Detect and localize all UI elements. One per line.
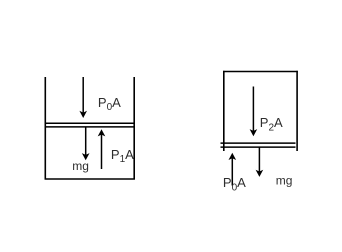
- arrow mg down (left figure): [85, 127, 87, 155]
- right piston bottom line: [221, 146, 296, 148]
- svg-text:mg: mg: [276, 173, 293, 187]
- right cylinder left wall: [223, 71, 225, 151]
- right cylinder right wall: [296, 71, 298, 151]
- svg-text:P0A: P0A: [223, 175, 246, 193]
- left cylinder left wall: [44, 77, 46, 180]
- svg-text:mg: mg: [72, 159, 89, 173]
- right piston top line: [221, 142, 296, 144]
- arrow P0A down (left figure): [82, 77, 84, 113]
- arrow P0A up (right figure): [231, 158, 233, 186]
- left cylinder right wall: [133, 77, 135, 180]
- svg-text:P1A: P1A: [111, 147, 134, 165]
- arrow mg down (right figure): [258, 148, 260, 172]
- arrow P1A up (left figure): [101, 134, 103, 169]
- left cylinder bottom: [45, 178, 135, 180]
- left piston top line: [45, 122, 135, 124]
- left piston bottom line: [45, 126, 135, 128]
- right cylinder top: [223, 71, 298, 73]
- svg-text:P2A: P2A: [260, 115, 283, 133]
- svg-text:P0A: P0A: [98, 95, 121, 113]
- arrow P2A down (right figure): [252, 87, 254, 132]
